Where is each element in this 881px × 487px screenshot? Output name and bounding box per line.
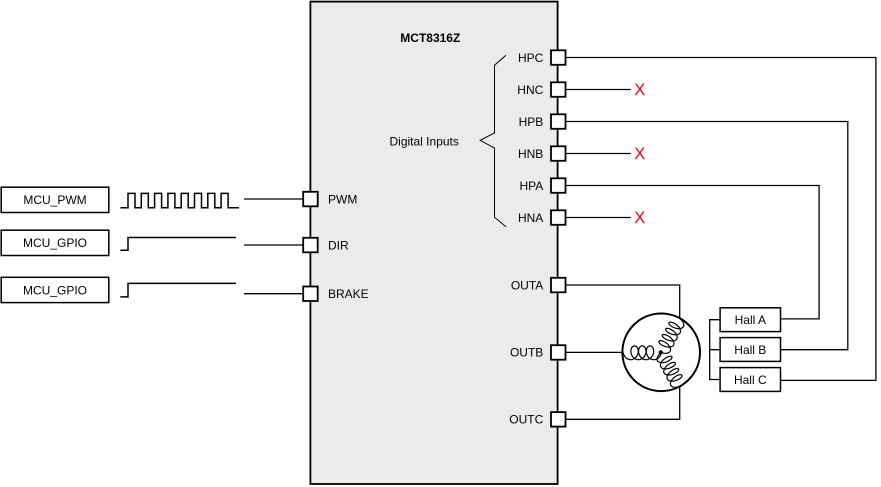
svg-text:HNA: HNA [518,211,543,225]
svg-text:X: X [634,209,645,227]
pin HPA [551,178,566,193]
wire HNC stub [566,89,631,91]
motor winding coil lower-right [657,353,682,388]
PWM waveform symbol [120,193,239,207]
svg-text:MCU_GPIO: MCU_GPIO [23,236,87,250]
svg-text:MCU_PWM: MCU_PWM [23,193,86,207]
svg-text:OUTB: OUTB [510,346,543,360]
pin HNA [551,210,566,225]
motor M1 body circle [622,314,700,392]
wire OUTC to motor [566,385,680,419]
svg-text:Hall C: Hall C [734,373,767,387]
BRAKE step waveform symbol [120,283,236,297]
wire to PWM pin [244,198,303,200]
IC block U1 MCT8316Z body [310,2,557,484]
svg-text:X: X [634,81,645,99]
brace for Digital Inputs group [480,55,506,226]
box Hall B [720,338,780,362]
svg-text:MCT8316Z: MCT8316Z [400,31,460,45]
svg-text:Hall A: Hall A [735,313,766,327]
svg-text:X: X [634,145,645,163]
svg-text:Hall B: Hall B [734,343,766,357]
wire HNB stub [566,153,631,155]
svg-text:OUTA: OUTA [511,278,543,292]
DIR step waveform symbol [120,238,236,251]
pin OUTC [551,412,566,427]
pin HNB [551,146,566,161]
svg-text:Digital Inputs: Digital Inputs [390,135,459,149]
svg-text:HPC: HPC [518,51,544,65]
hall sensor common bus wire [710,320,720,380]
box MCU_GPIO (BRAKE) [1,277,109,302]
wire to BRAKE pin [244,293,303,295]
svg-text:HPA: HPA [520,179,544,193]
svg-text:MCU_GPIO: MCU_GPIO [23,283,87,297]
motor winding coil left [623,346,661,360]
wire to DIR pin [244,244,303,246]
pin BRAKE [303,287,318,302]
svg-text:HNC: HNC [517,83,543,97]
pin PWM [303,192,318,207]
wire HPC to Hall C [566,58,876,381]
wire OUTB to motor [566,351,624,353]
motor star point node [659,350,663,354]
svg-text:DIR: DIR [328,238,349,252]
pin HPC [551,50,566,65]
svg-text:HNB: HNB [518,147,543,161]
wire HNA stub [566,217,631,219]
pin DIR [303,238,318,253]
motor winding coil upper-right [659,318,684,353]
pin OUTB [551,345,566,360]
svg-text:BRAKE: BRAKE [328,287,369,301]
wire HPB to Hall B [566,122,848,350]
svg-text:PWM: PWM [328,192,357,206]
wire OUTA to motor [566,285,680,319]
wire HPA to Hall A [566,186,819,319]
pin HNC [551,82,566,97]
box MCU_PWM [1,187,109,212]
svg-text:OUTC: OUTC [509,413,543,427]
box MCU_GPIO (DIR) [1,230,109,255]
pin HPB [551,114,566,129]
box Hall C [720,368,780,392]
pin OUTA [551,278,566,293]
svg-text:HPB: HPB [519,115,544,129]
box Hall A [720,308,780,332]
